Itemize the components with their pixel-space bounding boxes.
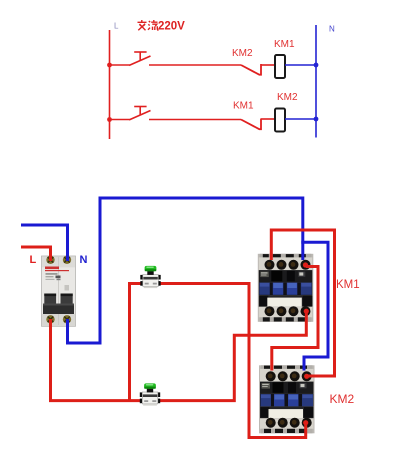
push button SB2 (green) (140, 383, 160, 405)
wire branch1 to coil (261, 64, 275, 66)
svg-text:L: L (30, 254, 37, 266)
svg-text:KM2: KM2 (277, 92, 298, 103)
coil KM2 (275, 109, 285, 132)
node KM1-T4 terminal (red) (303, 262, 308, 267)
contactor KM2 (259, 365, 315, 433)
wire KM1-T1 to KM2-T4 loop (red) (271, 230, 334, 376)
svg-text:KM1: KM1 (274, 39, 295, 50)
wire branch1 right (285, 64, 316, 66)
node L-branch2 (107, 117, 112, 122)
wire N breaker to top rail (blue) (68, 198, 303, 343)
svg-text:KM2: KM2 (330, 392, 355, 406)
wire branch2 mid (149, 119, 241, 121)
svg-text:KM1: KM1 (336, 279, 360, 291)
node L-branch1 (107, 63, 112, 68)
wire branch2 left (110, 119, 130, 121)
node KM1 bottom T4 terminal (red) (304, 309, 309, 314)
wire button column to KM2 (red) (130, 284, 306, 438)
wire N branch to KM2 coil (blue) (301, 242, 328, 370)
coil KM1 (275, 55, 285, 78)
push button SB1 (129, 52, 150, 65)
wire L supply stub (red) (21, 247, 51, 261)
contactor KM1 (258, 254, 314, 322)
wire L breaker to bottom rail to KM1 (red) (51, 311, 307, 401)
wire branch2 right (285, 118, 316, 120)
wire branch1 left (110, 64, 130, 66)
push button SB2 (129, 107, 150, 120)
wire branch1 mid (149, 64, 241, 66)
svg-text:N: N (329, 25, 335, 34)
wire L rail (109, 30, 111, 139)
wire KM1-T4 to KM2-T1 (red) (272, 267, 318, 371)
contact KM2 (NC) (241, 64, 261, 75)
svg-text:L: L (114, 22, 119, 31)
contact KM1 (NC) (241, 119, 261, 130)
svg-text:220V: 220V (158, 21, 185, 33)
push button SB1 (green) (140, 266, 160, 288)
node N-branch1 (314, 63, 319, 68)
svg-text:KM1: KM1 (233, 101, 254, 112)
label 交流220V (138, 20, 159, 30)
svg-text:N: N (80, 254, 88, 266)
node KM2 bottom T4 terminal (red) (303, 420, 308, 425)
svg-text:KM2: KM2 (232, 48, 253, 59)
node KM2-T4 terminal (red) (304, 374, 309, 379)
circuit breaker QF (42, 256, 76, 327)
wire N rail (315, 25, 317, 138)
node N-branch2 (314, 117, 319, 122)
wire N supply stub (blue) (21, 225, 68, 261)
wire branch2 to coil (261, 118, 275, 120)
